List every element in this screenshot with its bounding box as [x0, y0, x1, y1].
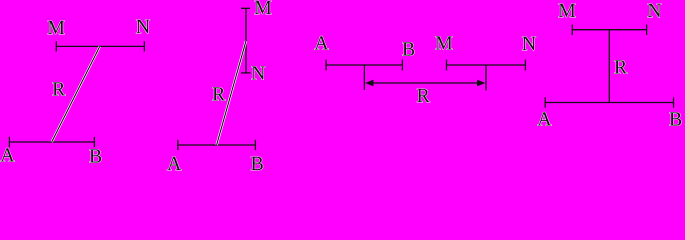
svg-text:B: B [89, 146, 102, 168]
svg-text:N: N [647, 0, 661, 22]
svg-text:M: M [254, 0, 272, 19]
svg-text:A: A [537, 109, 552, 131]
svg-text:N: N [522, 33, 536, 55]
svg-text:R: R [417, 85, 431, 107]
svg-text:M: M [558, 0, 576, 22]
svg-text:N: N [251, 63, 265, 85]
svg-text:A: A [314, 33, 329, 55]
svg-text:N: N [136, 16, 150, 38]
svg-text:R: R [212, 84, 226, 106]
svg-text:A: A [0, 145, 15, 167]
svg-text:M: M [47, 17, 65, 39]
svg-text:B: B [669, 109, 682, 131]
svg-text:A: A [167, 153, 182, 173]
svg-text:R: R [52, 79, 66, 101]
svg-text:B: B [402, 39, 415, 61]
svg-text:R: R [614, 57, 628, 79]
svg-text:B: B [251, 153, 264, 173]
svg-text:M: M [435, 33, 453, 55]
